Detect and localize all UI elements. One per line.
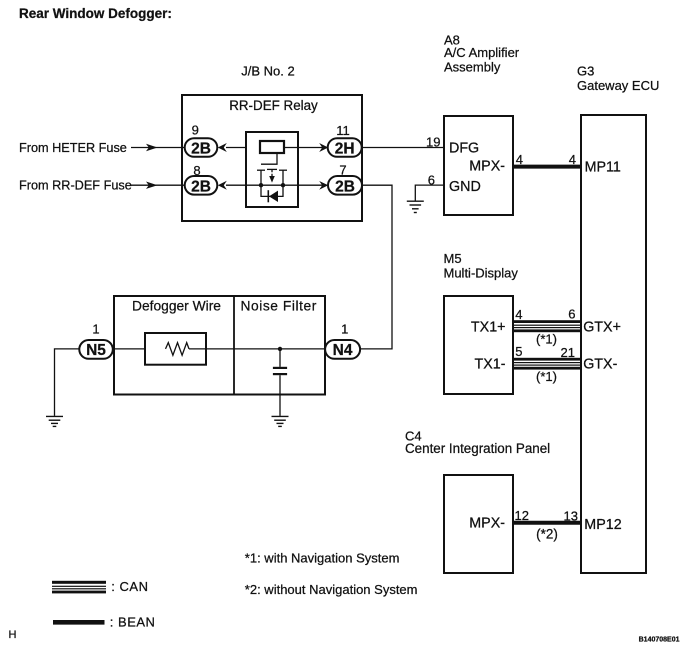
svg-text:Rear Window Defogger:: Rear Window Defogger: <box>19 6 172 21</box>
svg-text:1: 1 <box>92 322 99 337</box>
ground (noise filter) <box>272 416 289 426</box>
svg-text:H: H <box>9 629 17 641</box>
relay coil-contact link <box>261 153 277 164</box>
junction node (noise filter tap) <box>278 347 282 351</box>
svg-text:G3: G3 <box>577 64 594 79</box>
svg-text:GTX-: GTX- <box>583 357 617 373</box>
arrowhead into 2H pin 11 <box>319 143 328 152</box>
svg-text:B140708E01: B140708E01 <box>639 637 680 644</box>
relay RR-DEF internal box <box>246 132 298 207</box>
CAN bus TX1- to GTX- <box>513 358 581 370</box>
svg-text:RR-DEF Relay: RR-DEF Relay <box>229 98 318 113</box>
junction block J/B No.2 box <box>182 95 362 221</box>
gateway ECU G3 box <box>581 115 646 573</box>
BEAN bus A8 MPX- to G3 MP11 <box>513 165 581 169</box>
svg-text:: CAN: : CAN <box>111 579 148 594</box>
connector N4 (pin 1) <box>325 340 360 359</box>
svg-text:Center Integration Panel: Center Integration Panel <box>405 441 550 456</box>
ground (A8 pin 6) <box>407 201 424 212</box>
CAN bus TX1+ to GTX+ <box>513 320 581 332</box>
svg-text:From HETER Fuse: From HETER Fuse <box>19 141 127 155</box>
svg-text:MP11: MP11 <box>585 159 621 175</box>
svg-text:11: 11 <box>336 123 350 138</box>
connector 2B (pin 7) <box>328 176 362 195</box>
BEAN bus C4 MPX- to G3 MP12 <box>513 521 581 525</box>
relay movable contact with diode <box>261 187 283 202</box>
label A8 block <box>444 32 520 74</box>
svg-text:12: 12 <box>515 508 529 523</box>
svg-text:MP12: MP12 <box>584 517 621 533</box>
resistor (defogger wire element) <box>166 343 190 356</box>
defogger wire / noise filter box <box>114 296 325 395</box>
svg-text:4: 4 <box>515 307 522 322</box>
arrowhead into 2B pin 8 <box>218 181 227 190</box>
svg-text:TX1+: TX1+ <box>471 319 506 335</box>
svg-text:N5: N5 <box>86 342 106 359</box>
svg-text:2B: 2B <box>335 178 355 195</box>
svg-text:4: 4 <box>516 152 523 167</box>
svg-text:Defogger Wire: Defogger Wire <box>132 298 221 313</box>
ground (N5) <box>46 416 63 426</box>
connector N5 (pin 1) <box>79 340 113 359</box>
svg-text:2B: 2B <box>191 141 211 158</box>
wire N4 to 2B pin 7 <box>360 185 392 349</box>
legend CAN bus symbol <box>52 581 106 594</box>
multi-display M5 box <box>444 296 513 394</box>
svg-text:6: 6 <box>568 306 575 321</box>
capacitor (noise filter) <box>273 350 287 416</box>
svg-text:*2: without Navigation System: *2: without Navigation System <box>245 582 418 597</box>
junction dot right <box>281 183 285 187</box>
arrowhead into 2B pin 9 <box>218 143 227 152</box>
center integration panel C4 box <box>444 475 513 573</box>
wire 2B pin 9 to relay coil <box>226 147 260 149</box>
wire relay contact to 2B pin 7 <box>298 184 328 186</box>
label M5 block <box>444 251 519 281</box>
svg-text:21: 21 <box>561 345 575 360</box>
svg-text:: BEAN: : BEAN <box>110 615 156 630</box>
svg-text:DFG: DFG <box>449 141 479 157</box>
label G3 block <box>577 64 659 93</box>
svg-text:GTX+: GTX+ <box>583 319 621 335</box>
connector 2H (pin 11) <box>328 138 362 157</box>
svg-text:Noise Filter: Noise Filter <box>241 298 317 313</box>
relay contact actuation arrow <box>267 169 277 182</box>
arrowhead into 2B pin 7 <box>319 181 328 190</box>
svg-text:J/B No. 2: J/B No. 2 <box>241 64 294 79</box>
relay contact fixed terminals <box>257 170 287 185</box>
wire relay contact row <box>246 184 298 186</box>
svg-text:1: 1 <box>341 322 348 337</box>
svg-text:TX1-: TX1- <box>475 356 506 372</box>
svg-text:13: 13 <box>564 509 578 524</box>
svg-text:MPX-: MPX- <box>469 516 505 532</box>
label C4 block <box>405 428 550 456</box>
svg-text:N4: N4 <box>333 342 353 359</box>
svg-text:*1: with Navigation System: *1: with Navigation System <box>245 550 400 565</box>
svg-text:(*1): (*1) <box>536 332 557 347</box>
wire from RR-DEF fuse <box>130 182 185 189</box>
relay coil <box>260 141 284 153</box>
svg-text:(*2): (*2) <box>536 527 558 542</box>
A/C amplifier assembly A8 box <box>444 116 513 215</box>
wire N5 to defogger resistor <box>112 348 166 350</box>
svg-text:A/C Amplifier: A/C Amplifier <box>444 45 520 60</box>
wire 2H to A8 DFG <box>362 147 444 149</box>
svg-text:Gateway ECU: Gateway ECU <box>577 78 659 93</box>
svg-text:GND: GND <box>449 179 481 195</box>
wire relay coil to 2H <box>284 147 328 149</box>
svg-text:9: 9 <box>192 123 199 138</box>
legend BEAN bus symbol <box>53 620 105 625</box>
connector 2B (pin 9) <box>185 138 218 157</box>
svg-text:2B: 2B <box>191 178 211 195</box>
wire 2B pin 8 to relay contact <box>226 184 246 186</box>
wire resistor to N4 <box>189 348 326 350</box>
defogger wire resistor box <box>145 333 206 365</box>
svg-text:MPX-: MPX- <box>469 159 505 175</box>
svg-text:2H: 2H <box>335 141 355 158</box>
svg-text:5: 5 <box>515 344 522 359</box>
connector 2B (pin 8) <box>185 176 218 195</box>
svg-text:(*1): (*1) <box>536 369 557 384</box>
svg-text:6: 6 <box>428 172 435 187</box>
svg-text:Multi-Display: Multi-Display <box>444 266 519 281</box>
svg-text:19: 19 <box>426 134 440 149</box>
wire from HETER fuse <box>131 144 185 151</box>
wire N5 to ground <box>55 349 81 416</box>
svg-text:Assembly: Assembly <box>444 60 501 75</box>
svg-text:M5: M5 <box>444 251 462 266</box>
wire A8 GND to ground <box>415 185 444 201</box>
junction dot left <box>259 183 263 187</box>
svg-text:4: 4 <box>569 152 576 167</box>
svg-text:From RR-DEF Fuse: From RR-DEF Fuse <box>19 179 132 193</box>
